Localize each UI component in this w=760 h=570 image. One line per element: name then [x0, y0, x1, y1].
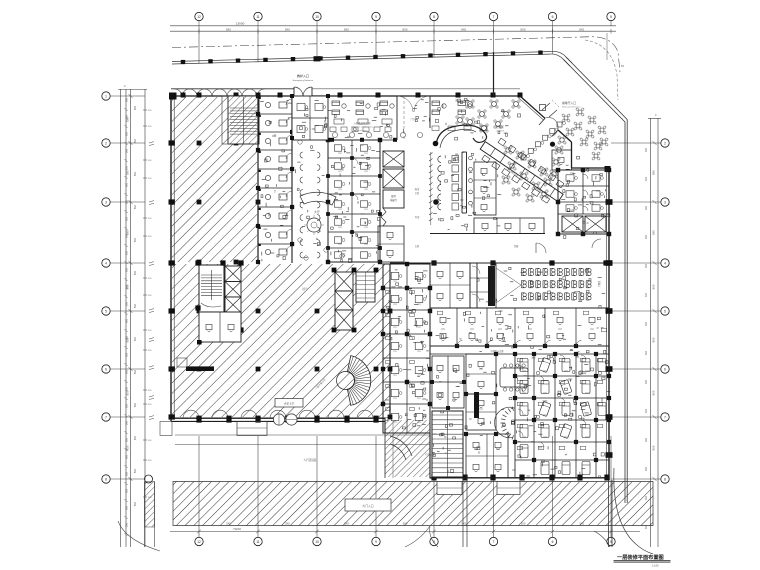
svg-text:口口: 口口 — [543, 392, 547, 395]
svg-text:电梯厅: 电梯厅 — [390, 198, 398, 202]
svg-text:11: 11 — [256, 15, 260, 19]
svg-text:口口: 口口 — [543, 436, 547, 439]
feature spiral stair — [347, 356, 370, 406]
svg-text:口口: 口口 — [522, 370, 526, 373]
svg-text:3X0: 3X0 — [127, 403, 129, 408]
top grid marker 6 — [489, 12, 497, 20]
building right wall upper notch — [571, 142, 573, 168]
Z12 beds — [520, 359, 528, 372]
svg-text:3X0: 3X0 — [127, 505, 129, 510]
hatch region upper-left podium — [172, 97, 257, 262]
stub wall in lower hatch — [186, 366, 214, 371]
Z12 top band door arcs — [457, 341, 463, 347]
building right wall — [608, 168, 610, 480]
svg-text:3X0: 3X0 — [646, 408, 648, 413]
Z12 outer — [430, 308, 609, 478]
Z12 C-arc feature — [512, 435, 514, 439]
Z12 mid rooms — [466, 354, 496, 394]
upper stair block — [228, 96, 259, 144]
leader line at x493 — [493, 52, 495, 96]
svg-text:口口: 口口 — [470, 328, 474, 331]
Z4 black dot lower — [433, 199, 439, 205]
Z1 door arcs — [352, 158, 358, 164]
top wall posts — [181, 93, 186, 98]
hatch region lower-left podium — [172, 264, 390, 417]
svg-text:口口: 口口 — [338, 152, 342, 155]
Z13 fixtures — [391, 272, 399, 279]
svg-text:3X0: 3X0 — [127, 301, 129, 306]
svg-text:口口: 口口 — [364, 170, 368, 173]
elevator core B shaft column — [335, 272, 353, 330]
svg-text:候诊: 候诊 — [415, 187, 420, 191]
building bottom wall west — [171, 417, 385, 419]
outer road curb curve top right — [585, 40, 618, 100]
svg-text:3X0: 3X0 — [127, 352, 129, 357]
svg-text:11: 11 — [256, 540, 260, 544]
rooms beside toilets top — [292, 96, 328, 140]
svg-text:8X0: 8X0 — [652, 390, 656, 395]
svg-text:口口: 口口 — [522, 436, 526, 439]
svg-text:口口: 口口 — [498, 328, 502, 331]
road dash-dot centerline — [172, 37, 620, 72]
site boundary corner turn — [549, 51, 572, 63]
svg-text:口口: 口口 — [564, 392, 568, 395]
svg-text:口口: 口口 — [364, 243, 368, 246]
entrance vestibule walls — [396, 96, 398, 140]
svg-text:9: 9 — [375, 15, 377, 19]
Z12 dark wall posts mid — [474, 392, 479, 418]
top-left corner heavy post — [169, 93, 177, 100]
Z12 wall fixtures small — [517, 358, 523, 361]
svg-text:12: 12 — [197, 15, 201, 19]
svg-text:4: 4 — [664, 261, 666, 265]
building chamfer wall — [520, 96, 545, 118]
svg-text:3X0: 3X0 — [646, 292, 648, 297]
svg-text:口口: 口口 — [393, 397, 397, 400]
svg-text:3X0: 3X0 — [127, 335, 129, 340]
svg-text:8X0: 8X0 — [652, 337, 656, 342]
svg-text:口口: 口口 — [596, 190, 600, 193]
svg-text:口口: 口口 — [338, 243, 342, 246]
ramp arcs — [390, 436, 412, 456]
svg-text:8X0: 8X0 — [652, 170, 656, 175]
hatch region ramp area — [385, 420, 430, 477]
top grid marker 1 — [195, 12, 203, 20]
svg-text:9: 9 — [375, 540, 377, 544]
svg-text:8: 8 — [433, 15, 435, 19]
svg-text:口口: 口口 — [585, 370, 589, 373]
Z8 shafts — [562, 216, 583, 232]
lobby chair columns — [300, 152, 303, 158]
svg-text:7: 7 — [493, 15, 495, 19]
lecture room walls — [476, 263, 478, 308]
svg-text:3X0: 3X0 — [127, 369, 129, 374]
top grid marker 5 — [430, 12, 438, 20]
svg-text:8X0: 8X0 — [135, 402, 137, 407]
walkway line 1 — [175, 434, 430, 436]
svg-text:3X0: 3X0 — [646, 147, 648, 152]
svg-text:13X00: 13X00 — [236, 22, 245, 26]
svg-text:COFFEE: COFFEE — [496, 131, 505, 133]
Z5 rooms outline — [474, 162, 496, 215]
outdoor terrace tables — [564, 116, 568, 120]
left strip bottom corner marker — [145, 475, 153, 483]
svg-text:5: 5 — [105, 309, 107, 313]
building bottom wall mid step — [384, 418, 386, 433]
svg-text:人行道铺装: 人行道铺装 — [304, 458, 317, 462]
svg-text:8X0: 8X0 — [461, 27, 466, 31]
svg-text:3X0: 3X0 — [127, 454, 129, 459]
shaft lower wavy break — [381, 208, 386, 226]
projection cone — [496, 268, 521, 285]
svg-text:口口: 口口 — [564, 436, 568, 439]
svg-text:8: 8 — [105, 477, 107, 481]
svg-text:口口: 口口 — [543, 414, 547, 417]
shaft machine box — [383, 190, 404, 208]
cafe tables corner — [518, 153, 522, 157]
svg-text:8X0: 8X0 — [521, 27, 526, 31]
Z12 top band fixtures — [437, 311, 442, 315]
svg-text:口口: 口口 — [570, 209, 574, 212]
svg-text:3X0: 3X0 — [646, 205, 648, 210]
svg-text:医用: 医用 — [391, 194, 396, 198]
Z12 corridor wall — [430, 353, 609, 355]
room below core A — [199, 312, 241, 342]
central cluster Z1 outline — [328, 140, 380, 262]
lounge east rows 2 — [432, 126, 439, 131]
left dim strip top tick — [118, 89, 147, 91]
svg-text:3X0: 3X0 — [127, 284, 129, 289]
svg-text:口口: 口口 — [417, 421, 421, 424]
svg-text:口口: 口口 — [558, 328, 562, 331]
svg-text:3X0: 3X0 — [646, 234, 648, 239]
Z13 black posts — [381, 309, 385, 313]
ramp area edges — [384, 420, 386, 478]
lounge furniture clusters west — [332, 101, 340, 106]
svg-text:口口: 口口 — [564, 370, 568, 373]
label box lower hatch — [275, 399, 303, 408]
small mark top x607 — [606, 33, 608, 60]
svg-text:3: 3 — [664, 200, 666, 204]
bottom wall west door arcs — [183, 410, 199, 418]
Z1 fixtures — [334, 145, 341, 151]
main corridor wall y263 — [390, 262, 609, 264]
core A wall posts — [195, 260, 200, 265]
svg-text:入院及出院手续: 入院及出院手续 — [354, 121, 371, 125]
svg-text:8X0: 8X0 — [135, 369, 137, 374]
svg-text:口口: 口口 — [393, 421, 397, 424]
svg-text:一层装修平面布置图: 一层装修平面布置图 — [617, 553, 664, 561]
road fence line upper — [172, 52, 549, 62]
left wall posts — [169, 140, 175, 145]
svg-text:4: 4 — [105, 261, 107, 265]
lobby counter arc — [300, 192, 336, 205]
svg-text:8X0: 8X0 — [135, 501, 137, 506]
upper stair landing — [222, 96, 228, 144]
core B wall posts — [332, 268, 337, 273]
svg-text:8X0: 8X0 — [135, 435, 137, 440]
svg-text:Restaurant Entrance: Restaurant Entrance — [562, 106, 581, 109]
elevator core A shaft column — [225, 266, 241, 330]
svg-text:5: 5 — [610, 15, 612, 19]
svg-text:3X0: 3X0 — [127, 488, 129, 493]
top grid dimension line B — [170, 30, 616, 32]
svg-text:口口: 口口 — [393, 326, 397, 329]
svg-text:3X0: 3X0 — [646, 176, 648, 181]
lounge south wall — [322, 139, 397, 141]
svg-text:口口: 口口 — [496, 448, 500, 451]
svg-text:口口: 口口 — [364, 188, 368, 191]
svg-text:口口: 口口 — [417, 397, 421, 400]
lower hatch right wall — [389, 264, 391, 418]
right dim strip vertical lines — [650, 118, 652, 547]
svg-text:8X0: 8X0 — [135, 303, 137, 308]
Z13 door arcs — [407, 288, 413, 294]
Z8 door arcs — [583, 174, 588, 179]
svg-text:8X0: 8X0 — [135, 270, 137, 275]
svg-text:3X0: 3X0 — [646, 437, 648, 442]
Z12 rooms left of stair — [432, 356, 464, 408]
Z8 junction posts — [556, 168, 560, 172]
svg-text:3X0: 3X0 — [127, 267, 129, 272]
stair wall lines crossing strip — [462, 478, 464, 547]
lecture desks rows — [520, 268, 522, 275]
svg-text:3X0: 3X0 — [127, 216, 129, 221]
svg-text:口口: 口口 — [590, 328, 594, 331]
lobby scattered seats — [298, 140, 302, 144]
bottom curb arc left — [405, 526, 430, 547]
toilet fixtures — [265, 102, 270, 107]
svg-text:8X0: 8X0 — [344, 27, 349, 31]
Z5 fixtures — [481, 168, 487, 173]
service elevator shaft 1 — [383, 151, 404, 167]
svg-text:口口: 口口 — [585, 436, 589, 439]
Z14 rooms — [430, 263, 470, 308]
left dim strip vertical lines — [120, 89, 122, 547]
road fence posts — [181, 60, 185, 64]
fence heavy post at entrance axis — [314, 56, 321, 61]
svg-text:口口: 口口 — [338, 208, 342, 211]
svg-text:3X0: 3X0 — [127, 522, 129, 527]
svg-text:8X0: 8X0 — [579, 27, 584, 31]
svg-text:口口: 口口 — [479, 408, 483, 411]
service elevator shaft 2 — [383, 169, 404, 188]
small box lower hatch left — [177, 358, 187, 367]
top grid marker 3 — [313, 12, 321, 20]
lobby flower feature — [307, 218, 321, 232]
Z12 left stair — [432, 411, 463, 477]
Z12 toilets small — [536, 371, 540, 375]
svg-text:8: 8 — [664, 477, 666, 481]
svg-text:7: 7 — [105, 415, 107, 419]
svg-text:3X0: 3X0 — [127, 165, 129, 170]
chamfer entrance doors — [539, 118, 558, 136]
corridor posts y263 — [431, 260, 436, 265]
svg-text:5: 5 — [664, 309, 666, 313]
lounge planter row — [332, 132, 337, 137]
svg-text:8X0: 8X0 — [285, 27, 290, 31]
svg-text:3X0: 3X0 — [646, 263, 648, 268]
Z12 wall junction posts — [513, 352, 517, 356]
Z12 top rooms band — [456, 308, 458, 346]
interior columns lower hatch — [197, 309, 202, 314]
svg-text:1: 1 — [105, 94, 107, 98]
svg-text:8X0: 8X0 — [135, 336, 137, 341]
right grid markers — [661, 139, 669, 147]
Z13 inner walls — [383, 287, 430, 289]
building bottom wall east — [430, 477, 609, 479]
Z12 conference table — [500, 368, 528, 387]
toilet strip room dividers — [258, 113, 292, 115]
hatch region bottom strip — [173, 482, 653, 526]
diagonal counter band — [476, 142, 563, 208]
top grid marker 8 — [607, 12, 615, 20]
svg-text:6: 6 — [552, 540, 554, 544]
svg-text:7: 7 — [664, 415, 666, 419]
left dim sub ticks — [143, 109, 147, 111]
lower hatch wall posts — [388, 309, 393, 314]
svg-text:3X0: 3X0 — [127, 250, 129, 255]
svg-text:8X0: 8X0 — [135, 204, 137, 209]
top grid ticks — [198, 29, 200, 34]
hatch region bottom strip left column — [145, 482, 155, 528]
svg-text:大堂上空: 大堂上空 — [284, 402, 295, 406]
svg-text:8X0: 8X0 — [226, 27, 231, 31]
bottom dimension line — [170, 531, 640, 533]
svg-text:7: 7 — [493, 540, 495, 544]
toilet strip outline — [257, 96, 259, 263]
svg-text:8X0: 8X0 — [135, 171, 137, 176]
svg-text:2: 2 — [105, 141, 107, 145]
svg-text:6: 6 — [664, 367, 666, 371]
svg-text:挂号: 挂号 — [302, 287, 308, 291]
left grid markers — [102, 92, 110, 100]
Z12 right rooms grid — [533, 354, 535, 478]
svg-text:Emergency Entrance: Emergency Entrance — [293, 79, 314, 82]
building top wall east run — [312, 95, 520, 97]
svg-text:8X0: 8X0 — [652, 284, 656, 289]
svg-text:8X0: 8X0 — [135, 105, 137, 110]
svg-text:3X0: 3X0 — [127, 318, 129, 323]
site boundary diagonal double line — [566, 57, 627, 120]
corridor door arcs Z9 — [536, 243, 546, 253]
elevator core A stair room — [199, 265, 224, 312]
chamfer seating row — [557, 122, 562, 127]
svg-text:口口: 口口 — [417, 326, 421, 329]
svg-text:10: 10 — [315, 540, 319, 544]
Z12 door arcs right rooms — [518, 365, 523, 370]
svg-text:3X0: 3X0 — [127, 199, 129, 204]
svg-text:口口: 口口 — [543, 370, 547, 373]
Z1 black posts — [326, 138, 330, 142]
corridor wall y233 — [430, 233, 545, 235]
svg-text:3X0: 3X0 — [127, 437, 129, 442]
svg-text:3X0: 3X0 — [646, 466, 648, 471]
clutter marks dense areas — [361, 144, 364, 146]
svg-text:3X0: 3X0 — [127, 182, 129, 187]
svg-text:口口: 口口 — [393, 350, 397, 353]
chair column Z4 — [438, 156, 441, 162]
bottom wall west posts — [196, 416, 201, 423]
svg-text:3X0: 3X0 — [127, 233, 129, 238]
lounge extra rows west — [330, 127, 336, 132]
Z8 block walls — [558, 170, 609, 234]
bottom grid markers — [195, 537, 203, 545]
toilet strip wall posts — [256, 94, 260, 98]
svg-text:口口: 口口 — [522, 392, 526, 395]
site boundary right vertical double line — [624, 148, 626, 504]
svg-text:口口: 口口 — [393, 280, 397, 283]
svg-text:口口: 口口 — [479, 368, 483, 371]
svg-text:8X0: 8X0 — [403, 27, 408, 31]
walkway line 2 — [175, 444, 430, 446]
svg-text:3X0: 3X0 — [127, 148, 129, 153]
svg-text:3X0: 3X0 — [127, 386, 129, 391]
hook black dot — [433, 141, 439, 147]
core B stair — [356, 272, 375, 302]
strip inner notch 1 — [437, 482, 462, 495]
Z8 west small room — [552, 150, 572, 170]
svg-text:口口: 口口 — [441, 328, 445, 331]
hook curved wall — [436, 125, 487, 146]
Z11 rooms — [474, 218, 544, 234]
svg-text:口口: 口口 — [338, 188, 342, 191]
svg-text:8X0: 8X0 — [135, 468, 137, 473]
top grid marker 4 — [372, 12, 380, 20]
top grid marker 7 — [548, 12, 556, 20]
svg-text:6: 6 — [105, 367, 107, 371]
svg-text:3X0: 3X0 — [646, 350, 648, 355]
svg-text:Waiting area: Waiting area — [357, 129, 368, 132]
Z1 wall junction posts — [350, 156, 354, 160]
entrance steps below wall — [237, 421, 267, 435]
svg-text:口口: 口口 — [364, 226, 368, 229]
interior columns upper hatch — [197, 141, 202, 146]
right dim strip top tick — [648, 118, 661, 120]
svg-text:口口: 口口 — [585, 392, 589, 395]
svg-text:口口: 口口 — [364, 208, 368, 211]
counter stools — [469, 156, 473, 160]
svg-text:8X0: 8X0 — [135, 138, 137, 143]
strip inner notch 2 — [497, 482, 520, 495]
revolving door circles at bottom wall — [273, 414, 284, 425]
svg-text:3X0: 3X0 — [646, 321, 648, 326]
svg-text:3: 3 — [105, 200, 107, 204]
bottom curb arc right — [594, 531, 610, 547]
top grid marker 2 — [254, 12, 262, 20]
svg-text:大门入口: 大门入口 — [362, 504, 373, 508]
svg-text:12: 12 — [197, 540, 201, 544]
svg-text:1:100: 1:100 — [652, 564, 659, 568]
svg-text:3X0: 3X0 — [127, 131, 129, 136]
svg-text:3X0: 3X0 — [127, 420, 129, 425]
svg-text:口口: 口口 — [393, 303, 397, 306]
svg-text:8X0: 8X0 — [652, 445, 656, 450]
Z12 lower mid rooms — [466, 434, 508, 478]
diagonal scattered desks — [498, 138, 506, 146]
top grid line stubs — [198, 26, 200, 64]
svg-text:轻餐区: 轻餐区 — [496, 125, 504, 129]
svg-text:6: 6 — [552, 15, 554, 19]
Z1 inner walls — [328, 157, 380, 159]
svg-text:B1: B1 — [621, 64, 625, 68]
svg-text:2: 2 — [664, 141, 666, 145]
chamfer corner black dot — [550, 142, 555, 147]
Z13 outer walls — [383, 264, 430, 433]
svg-text:8X0: 8X0 — [135, 237, 137, 242]
svg-text:8X0: 8X0 — [652, 230, 656, 235]
counter wall Z4 — [461, 152, 463, 213]
